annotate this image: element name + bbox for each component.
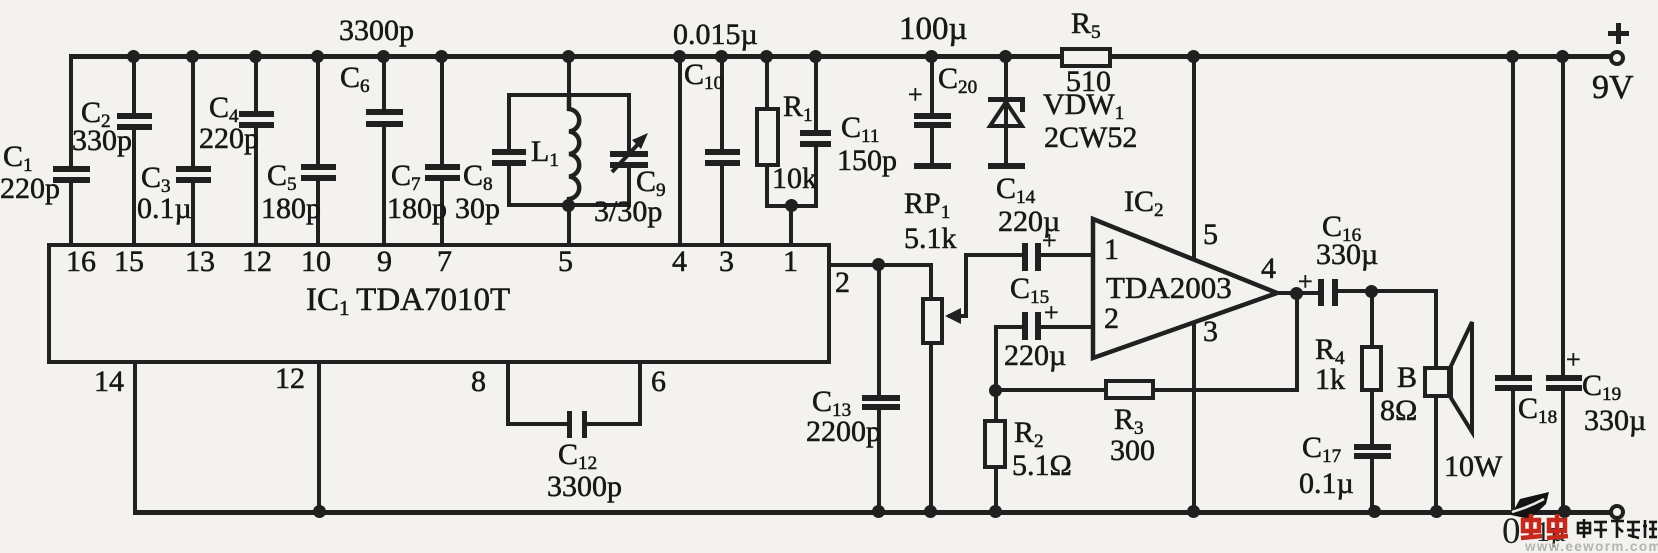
svg-text:0: 0: [1502, 511, 1521, 552]
svg-text:www.eeworm.com: www.eeworm.com: [1524, 539, 1658, 553]
